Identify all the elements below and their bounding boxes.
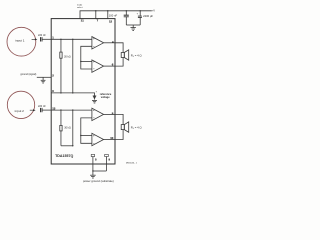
op-amp U2 [92,60,104,72]
wire pin1 to amp U1 [51,38,92,40]
svg-text:+VP: +VP [152,9,155,13]
svg-text:2200 µF: 2200 µF [143,14,153,18]
svg-text:+: + [93,108,95,112]
output wire pin 8 [115,114,123,124]
svg-text:220 nF: 220 nF [38,34,46,37]
svg-text:10: 10 [110,136,114,140]
junction feedback bus U4 upper input [80,135,81,136]
op-amp U1 [92,37,104,49]
op-amp U4 [92,133,104,145]
svg-text:+: + [96,91,98,94]
svg-text:9: 9 [109,157,111,161]
junction vref drop on input 2 wire [72,109,73,110]
svg-text:220 nF: 220 nF [38,105,46,108]
bottom pin 9 pad [105,154,109,156]
svg-text:100 nF: 100 nF [109,13,118,17]
junction pin 12 on supply rail [107,10,108,11]
wire bias ch2 [61,145,73,147]
svg-text:5: 5 [95,157,97,161]
pin 7 stub [95,11,97,19]
svg-text:11: 11 [81,18,84,22]
junction R1 top on input 1 wire [60,39,61,40]
svg-text:voltage: voltage [101,95,111,99]
svg-text:−: − [93,116,95,120]
ground (signal) wire [37,76,51,78]
output wire pin 10 [115,130,123,140]
wire feedback bus ch2 [81,118,92,143]
junction bias wire ch2 [72,145,73,146]
svg-text:7: 7 [97,19,99,23]
capacitor C4 2200uF [139,11,141,16]
svg-text:12: 12 [109,19,113,23]
svg-text:RL = 4 Ω: RL = 4 Ω [131,126,142,131]
loudspeaker ch2 [121,125,124,130]
junction feedback bus U2 upper input [80,61,81,62]
svg-text:+: + [93,37,95,41]
svg-text:select: select [77,6,83,9]
svg-text:+: + [137,13,139,16]
svg-text:2: 2 [52,73,54,77]
svg-text:+: + [93,60,95,64]
resistor R2 30k lead [60,110,62,125]
svg-text:30 kΩ: 30 kΩ [64,55,71,58]
bottom pin 5 pad [91,154,94,156]
wire join caps to ground [126,24,140,26]
svg-text:−: − [93,67,95,71]
junction C3 on supply rail [126,10,127,11]
capacitor C3 100nF [125,11,127,15]
svg-text:−: − [93,141,95,145]
wire join bottom pins [93,170,107,172]
output wire pin 6 [115,57,123,66]
svg-text:+: + [93,134,95,138]
svg-text:RL = 4 Ω: RL = 4 Ω [131,53,142,58]
reference voltage source [93,95,97,97]
ground (supply decoupling) [131,27,136,29]
input 2 coupling wire [42,109,51,111]
svg-text:ground (signal): ground (signal) [20,73,36,76]
pin 12 stub [107,11,109,19]
input 1 source circle [7,27,36,56]
junction R1 bottom on vref wire [60,92,61,93]
svg-text:3: 3 [52,89,54,93]
junction hang ch1 on vref wire [72,92,73,93]
svg-text:input 1: input 1 [15,39,25,43]
op-amp U3 [92,108,104,120]
svg-text:input 2: input 2 [15,109,25,113]
resistor R1 30k [60,52,62,58]
ground signal symbol [42,77,44,80]
input 2 source circle [7,91,34,118]
resistor R2 30k [60,125,62,130]
resistor R1 30k lead [60,39,62,52]
power ground symbol [90,174,96,176]
svg-text:TDA1557Q: TDA1557Q [55,154,73,158]
svg-text:30 kΩ: 30 kΩ [64,127,71,130]
svg-text:MGD046 - 1: MGD046 - 1 [126,163,138,165]
loudspeaker ch1 [121,53,124,58]
junction vref drop on input 1 wire [72,39,73,40]
junction C4 on supply rail [140,10,141,11]
junction R2 top on input 2 wire [60,109,61,110]
svg-text:power ground (substrate): power ground (substrate) [83,179,114,183]
op-amp +/- marks [93,37,95,146]
svg-text:4: 4 [112,40,114,44]
capacitor C2 220nF [40,108,42,112]
input 1 arrow [32,38,36,40]
svg-text:13: 13 [52,107,56,111]
junction pin 7 on supply rail [95,10,96,11]
wire feedback bus ch1 [81,46,92,69]
input 2 arrow [30,109,34,111]
input 1 coupling wire [42,38,51,40]
svg-text:−: − [93,44,95,48]
capacitor C1 220nF [40,37,42,41]
wire hang ch1 [72,39,74,93]
IC box TDA1557Q outline [51,19,115,164]
output wire pin 4 [115,43,123,53]
supply rail [80,11,152,19]
vref wire pin 3 [51,93,94,96]
wire hang ch2 [72,110,74,146]
junction power ground join [92,170,93,171]
